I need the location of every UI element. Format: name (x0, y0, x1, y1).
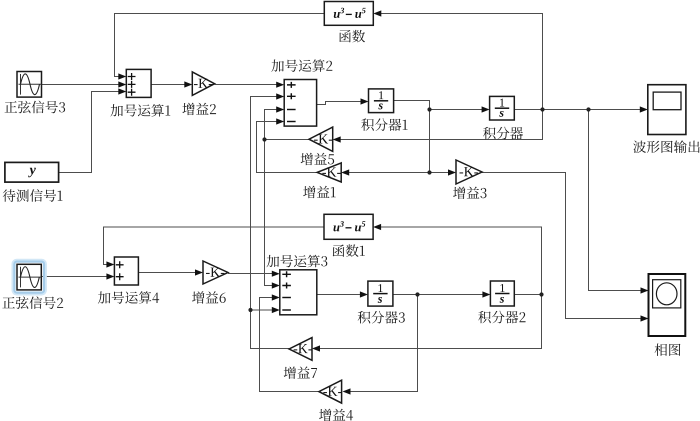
label 正弦信号3 (5, 101, 66, 114)
wire: 函数 output feedback to 加号运算1 input1 (115, 14, 325, 77)
gain block 增益6 (203, 261, 228, 284)
gain block 增益7 (289, 338, 312, 361)
label 相图 (655, 344, 681, 356)
wire: 正弦信号2 to 加号运算4 input2 (41, 276, 108, 278)
gain block 增益1 (317, 163, 341, 182)
wire: 加号运算3 to 积分器3 (317, 294, 362, 296)
label 加号运算3 (267, 255, 328, 268)
integrator block 积分器1 (369, 89, 394, 113)
gain block 增益4 (319, 380, 342, 403)
label 积分器1 (361, 118, 407, 131)
wire: junction down to 加号运算3 input2 (265, 140, 274, 286)
gain block 增益5 (309, 127, 333, 151)
gain block 增益2 (192, 72, 214, 96)
junction dot at 相图 input1 branch (586, 107, 590, 111)
wire: 函数1 output feedback to 加号运算4 input1 (104, 227, 325, 265)
junction dot at gain1/gain3 branch (427, 170, 431, 174)
constant block 待测信号1 (y) (5, 162, 59, 182)
label 加号运算4 (98, 291, 159, 304)
wire: node to 增益1 input (348, 172, 430, 174)
label 函数1 (333, 244, 365, 256)
wire: junction down to 增益7 input (320, 295, 542, 349)
wire: node to 增益3 input (430, 172, 450, 174)
sum block 加号运算1 (126, 69, 151, 97)
label 增益6 (192, 291, 226, 303)
function block 函数 (u^3 - u^5) (324, 2, 373, 26)
label 增益2 (182, 103, 216, 115)
label 正弦信号2 (2, 296, 63, 309)
label 增益4 (319, 409, 353, 421)
label 加号运算1 (110, 104, 170, 117)
wire: 积分器2 output to junction (514, 294, 541, 296)
junction dot at 函数/增益5 branch (540, 107, 544, 111)
junction dot at 积分器3 output (415, 292, 419, 296)
wire: 增益2 to 加号运算2 input1 (215, 84, 278, 86)
wire: 积分器1 output right then down (394, 101, 430, 173)
junction dot at integrator input branch (427, 107, 431, 111)
wire: junction down to 相图 input1 (589, 110, 643, 291)
wire: 增益4 output to 加号运算3 input3 (260, 298, 319, 392)
integrator block 积分器2 (490, 281, 514, 306)
label 增益1 (303, 186, 335, 198)
wire: 增益6 to 加号运算3 input1 (228, 273, 274, 275)
label 增益7 (284, 366, 317, 378)
function block 函数1 (u^3 - u^5) (324, 214, 373, 239)
wire: 加号运算2 to 积分器1 (317, 102, 362, 105)
wire: junction to 积分器 input (430, 109, 484, 111)
label 积分器2 (478, 311, 525, 324)
gain block 增益3 (456, 160, 482, 184)
wire: 加号运算1 to 增益2 (151, 84, 186, 86)
wire: junction up to 函数1 input (381, 227, 542, 295)
scope block 波形图输出 (648, 85, 686, 135)
junction dot at 积分器2 output (539, 292, 543, 296)
integrator block 积分器 (490, 96, 515, 120)
integrator block 积分器3 (368, 281, 393, 306)
wire: 增益3 output to 相图 input2 (482, 173, 642, 319)
wire: 增益5 output to junction (265, 139, 310, 141)
wire: 待测信号1 to 加号运算1 input3 (59, 92, 120, 173)
wire: 加号运算4 to 增益6 (138, 272, 196, 274)
wire: 积分器3 to 积分器2 (393, 294, 484, 296)
sum block 加号运算2 (284, 80, 316, 127)
label 加号运算2 (271, 59, 332, 72)
sum block 加号运算4 (114, 257, 138, 285)
label 积分器 (483, 127, 523, 140)
label 待测信号1 (3, 189, 63, 202)
source block 正弦信号3 (sine wave) (17, 72, 42, 98)
junction dot at 增益5 output (262, 137, 266, 141)
label 积分器3 (358, 311, 405, 324)
junction dot at 加号运算3 input4 branch (248, 308, 252, 312)
label 函数 (339, 30, 365, 42)
label 增益5 (301, 153, 334, 165)
label 增益3 (453, 187, 486, 199)
wire: junction up to 函数 input (381, 14, 543, 110)
wire: 增益7 output up to 加号运算2 input2 (251, 97, 290, 349)
label 波形图输出 (633, 140, 699, 153)
wire: 积分器 output to 波形图输出 (514, 109, 641, 111)
sum block 加号运算3 (280, 270, 317, 315)
source block 正弦信号2 (sine wave, selected) (13, 260, 45, 293)
wire: 正弦信号3 to 加号运算1 input2 (42, 84, 121, 86)
xy-graph block 相图 (649, 274, 686, 336)
wire: 增益1 output to 加号运算2 input4 (257, 122, 318, 173)
wire: junction up to 加号运算2 input3 (265, 110, 279, 140)
wire: branch to 加号运算3 input4 (251, 309, 274, 311)
wire: junction down to 增益5 input (340, 110, 543, 140)
wire: junction down to 增益4 input (350, 295, 418, 392)
